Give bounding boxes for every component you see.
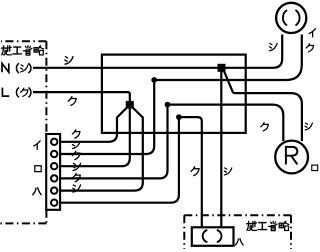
wire from node S1 diagonal to lamp R (white) (224, 71, 302, 141)
label ku on L wire (68, 97, 76, 106)
label I at terminal block (34, 141, 40, 149)
terminal 4 (51, 175, 57, 181)
wire lamp R black lead to node D2 (168, 105, 284, 141)
label KU on terminal-3 wire (72, 151, 80, 159)
wire node D3 right and down to lamp HA (black) (179, 117, 202, 228)
wire L from source down into connector S2 (black) (33, 92, 130, 101)
junction dot D3 (176, 114, 182, 120)
label SHI on lamp I white lead (269, 44, 277, 51)
junction dot D2 (165, 102, 171, 108)
lamp HA : omitted lamp box (192, 227, 234, 246)
label HA at lamp HA box (235, 239, 243, 246)
label KU on terminal-5 wire (73, 173, 81, 181)
lamp I : ceiling receptacle circle (276, 3, 306, 33)
label KU on lamp HA black lead (191, 167, 199, 176)
label SHI on terminal-4 wire (73, 163, 81, 170)
terminal 1 (51, 139, 57, 145)
terminal block (relay strip) (46, 134, 60, 210)
wire from node S1 down to lamp HA (white) (220, 71, 222, 228)
label SHI on lamp R white lead (305, 123, 312, 130)
label SEKOU-SHOURYAKU top-left (2, 46, 44, 55)
label N (shi) (2, 63, 9, 72)
lamp R : lamp receptacle circle (275, 141, 308, 174)
wire N from source to lamp I (white) (33, 35, 282, 68)
connector square S1 on N line (218, 64, 226, 72)
wire node D2 down to terminal 4 (55, 105, 168, 179)
label L (ku) (2, 88, 9, 97)
wire node D1 down to terminal 2 (55, 80, 155, 154)
wire node D3 down to terminal 6 (55, 117, 179, 203)
label KU on lamp R black lead (261, 123, 269, 131)
junction dot D1 (151, 77, 157, 83)
connector square S2 on L line (126, 101, 134, 109)
terminal 3 (51, 163, 57, 169)
terminal 5 (51, 187, 57, 193)
label RO at lamp R (312, 165, 318, 170)
terminal 6 (51, 200, 57, 206)
wire connector S2 fan to terminal 3 (black) (55, 108, 130, 166)
label SEKOU-SHOURYAKU bottom-right (247, 221, 289, 230)
label HA at terminal block (33, 188, 41, 195)
junction box (102, 55, 246, 133)
label SHI on terminal-2 wire (72, 141, 80, 148)
label SHI on lamp HA white lead (224, 168, 231, 175)
label KU on lamp I black lead (306, 44, 313, 52)
wire lamp I black lead to node D1 (154, 35, 302, 81)
label shi on N wire (65, 57, 73, 65)
label RO at terminal block (35, 166, 41, 172)
power source omitted region border (dash-dot), top-left (0, 41, 46, 223)
wire connector S2 fan to terminal 5 (black) (55, 108, 143, 191)
label I at lamp I (309, 29, 315, 37)
wire connector S2 fan to terminal 1 (black) (55, 108, 128, 142)
label KU on terminal-1 wire (72, 130, 80, 138)
lamp HA omitted region border (dash-dot), bottom-right (184, 215, 291, 249)
terminal 2 (51, 151, 57, 157)
label SHI on terminal-6 wire (73, 185, 81, 192)
